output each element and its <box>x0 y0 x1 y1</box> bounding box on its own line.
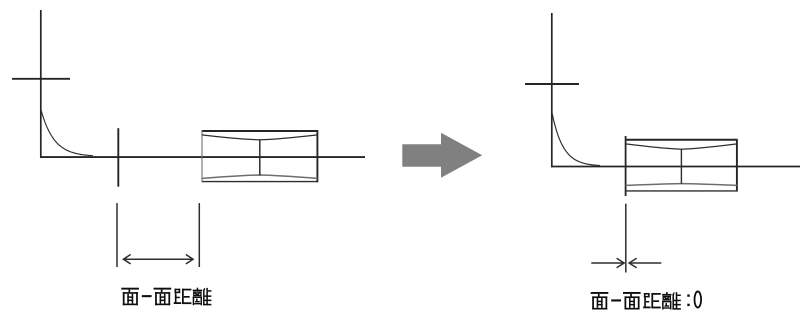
left dimension: right open arrowhead <box>186 255 193 264</box>
left dimension: extension line B <box>198 203 200 267</box>
text label "men-men kyori left" kanji MEN 2 <box>154 288 172 306</box>
left lens: lower concave surface pair <box>202 175 318 178</box>
text label "men-men kyori 0 right" kanji MEN 2 <box>623 292 641 310</box>
text label "men-men kyori 0 right" dash <box>611 299 621 301</box>
right lens: outline right edge <box>736 139 738 192</box>
right dimension: right arrowhead pointing left <box>629 258 637 268</box>
left figure: vertical reference line <box>40 10 42 158</box>
right caption: digit 0 <box>695 291 702 307</box>
left figure: cross tick on vertical line <box>12 78 70 80</box>
right caption: colon <box>687 294 689 306</box>
right figure: cross tick on vertical line <box>525 83 579 85</box>
text label "men-men kyori left" kanji RI (separation) <box>193 288 212 306</box>
left figure: horizontal optical axis <box>40 156 365 158</box>
right lens: outline top edge <box>625 139 738 141</box>
left lens: center junction line <box>259 140 261 175</box>
right dimension: left arrowhead pointing right <box>617 258 625 268</box>
right dimension: right arrow shaft <box>629 262 661 264</box>
left lens: outline left edge <box>201 130 203 182</box>
left lens: outline right edge <box>316 130 318 182</box>
right lens: outline bottom edge <box>625 190 738 192</box>
right figure: aspheric fillet curve <box>552 113 600 166</box>
text label "men-men kyori left" dash <box>142 295 152 297</box>
left figure: aspheric fillet curve <box>41 110 93 156</box>
right figure: surface tick mark / lens left edge <box>625 136 627 196</box>
right dimension: extension line <box>625 204 627 273</box>
right figure: vertical reference line <box>551 13 553 167</box>
left dimension: double-headed arrow shaft <box>123 258 193 260</box>
text label "men-men kyori left" kanji KYO (distance) <box>174 289 192 304</box>
big gray transition arrow <box>402 133 482 178</box>
text label "men-men kyori left" kanji MEN (face/surface) <box>121 288 139 306</box>
right dimension: left arrow shaft <box>591 262 624 264</box>
right lens: upper concave surface pair <box>626 144 738 149</box>
left dimension: left open arrowhead <box>123 255 130 264</box>
right lens: center junction line <box>680 149 682 184</box>
text label "men-men kyori 0 right" kanji RI (separation) <box>662 292 681 310</box>
text label "men-men kyori 0 right" kanji MEN (face/surface) <box>591 292 609 310</box>
right lens: lower concave surface pair <box>626 184 738 186</box>
left lens: outline bottom edge <box>202 181 319 183</box>
left lens: outline top edge <box>202 130 319 132</box>
left dimension: extension line A <box>116 203 118 267</box>
left figure: surface tick mark on axis <box>117 128 119 187</box>
right figure: horizontal optical axis <box>551 166 800 168</box>
left lens: upper concave surface pair <box>202 135 318 140</box>
text label "men-men kyori 0 right" kanji KYO (distance) <box>643 293 661 308</box>
